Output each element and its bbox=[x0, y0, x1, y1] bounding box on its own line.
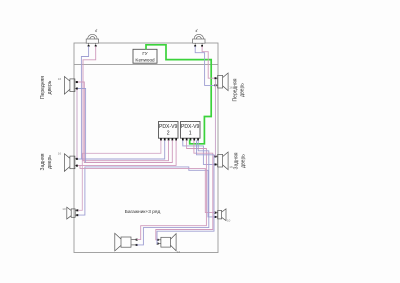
svg-text:Kenwood: Kenwood bbox=[135, 57, 155, 62]
tweeter right tiny label bbox=[196, 29, 198, 32]
svg-text:дверь: дверь bbox=[47, 155, 53, 169]
svg-text:16: 16 bbox=[58, 151, 62, 155]
tweeter left bbox=[86, 34, 98, 45]
tweeter right terminals bbox=[194, 45, 196, 47]
wire amp1 pin5 to trunk-left minus bbox=[137, 140, 209, 245]
svg-text:Задняя: Задняя bbox=[234, 152, 240, 169]
tweeter left terminals bbox=[88, 45, 90, 47]
wire 3row-left plus to amp2 pin1 bbox=[78, 140, 161, 210]
wire tweeter-left plus to amp2 pin2 bbox=[81, 46, 164, 159]
amplifier U1 PDX-V9 1 bbox=[181, 122, 201, 139]
car body outline bbox=[74, 43, 218, 253]
svg-text:Передняя: Передняя bbox=[233, 78, 239, 101]
wire front-left minus join bbox=[78, 89, 86, 163]
wire amp1 pin4 to trunk-right plus bbox=[156, 140, 213, 240]
speaker rear-right door bbox=[216, 152, 228, 170]
svg-text:PDX-V9: PDX-V9 bbox=[181, 124, 200, 130]
svg-text:Передняя: Передняя bbox=[40, 76, 46, 99]
speaker trunk-right bbox=[159, 234, 177, 251]
speaker front-right door bbox=[216, 73, 228, 91]
head unit box ГУ Kenwood bbox=[133, 49, 157, 63]
wire front-left plus to amp2 pin4 bbox=[78, 82, 173, 163]
svg-text:дверь: дверь bbox=[239, 83, 245, 97]
svg-text:16: 16 bbox=[58, 77, 62, 81]
wire trunk-right minus up to amp area bbox=[157, 140, 214, 243]
wire 3row-left minus across to 3row-right minus bbox=[78, 167, 215, 217]
amp1 pins bbox=[182, 138, 199, 140]
speaker rear-left door bbox=[64, 154, 76, 172]
amp2 pins bbox=[160, 138, 177, 140]
tweeter left tiny label bbox=[95, 29, 97, 32]
svg-text:10: 10 bbox=[227, 219, 231, 223]
wire rear-left branch across to 3row-right plus bbox=[80, 165, 215, 212]
svg-text:PDX-V9: PDX-V9 bbox=[159, 124, 178, 130]
wire front-left daisy down to rear-left plus bbox=[76, 89, 78, 158]
svg-text:Задняя: Задняя bbox=[40, 153, 46, 170]
wire rear-left minus to amp2 pin5 bbox=[78, 140, 176, 165]
green wire head unit to amp1 bbox=[146, 45, 211, 144]
tweeter right bbox=[193, 34, 205, 45]
speaker front-left door bbox=[64, 77, 76, 95]
wire rear-left plus stub bbox=[78, 158, 83, 160]
wire amp1 pin1 to rear-right minus bbox=[183, 140, 215, 164]
svg-text:2: 2 bbox=[167, 131, 170, 137]
svg-text:16: 16 bbox=[177, 250, 181, 254]
speaker 3rd-row-left (small) bbox=[67, 207, 77, 219]
dashboard line bbox=[74, 64, 218, 66]
svg-text:Багажник+3 ряд: Багажник+3 ряд bbox=[125, 209, 161, 215]
wire tweeter-right plus to front-right minus bbox=[195, 46, 214, 85]
svg-text:дверь: дверь bbox=[47, 80, 53, 94]
wire tweeter-left minus to amp2 pin3 bbox=[83, 46, 169, 161]
svg-text:16: 16 bbox=[229, 165, 233, 169]
svg-text:дверь: дверь bbox=[240, 154, 246, 168]
speaker 3rd-row-right (small) bbox=[216, 209, 226, 221]
wire tweeter-right minus to front-right plus bbox=[202, 46, 214, 78]
svg-text:1: 1 bbox=[189, 131, 192, 137]
wire front-right daisy down to rear-right plus bbox=[214, 79, 216, 156]
speaker trunk-left bbox=[115, 233, 136, 251]
svg-text:ГУ: ГУ bbox=[142, 51, 147, 56]
svg-text:10: 10 bbox=[62, 207, 66, 211]
amplifier U2 PDX-V9 2 bbox=[159, 122, 179, 139]
wire amp1 pin2 to trunk-left plus bbox=[137, 140, 207, 239]
